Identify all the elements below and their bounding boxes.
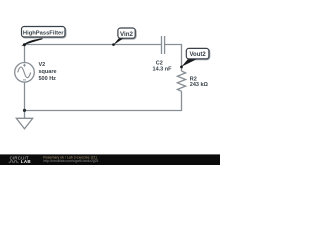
- capacitor C2: [162, 36, 165, 54]
- flag HighPassFilter: [21, 27, 66, 47]
- footer bar: [0, 154, 220, 165]
- wire source bottom lead: [24, 82, 26, 111]
- svg-text:243 kΩ: 243 kΩ: [190, 82, 209, 88]
- svg-text:14.3 nF: 14.3 nF: [153, 67, 173, 73]
- wire source top lead: [24, 45, 26, 63]
- svg-text:square: square: [39, 69, 57, 75]
- svg-text:http://circuitlab.com/c/gw5/4s: http://circuitlab.com/c/gw5/4sb4z2g25: [43, 159, 98, 163]
- node junction at bottom rail: [23, 109, 26, 112]
- flag Vin2: [112, 28, 136, 46]
- voltage source V2: [15, 63, 35, 83]
- wire top rail left of C2: [25, 44, 162, 46]
- ground: [16, 111, 32, 129]
- flag Vout2: [180, 48, 210, 68]
- resistor R2: [177, 71, 185, 91]
- svg-text:HighPassFilter: HighPassFilter: [23, 30, 64, 36]
- svg-text:Vin2: Vin2: [120, 31, 134, 38]
- svg-text:V2: V2: [39, 62, 46, 68]
- wire top rail right of C2 down to resistor: [165, 45, 182, 72]
- svg-text:Vout2: Vout2: [189, 52, 206, 58]
- wire resistor bottom to bottom rail: [25, 91, 182, 110]
- svg-text:LAB: LAB: [21, 159, 32, 164]
- svg-text:C2: C2: [156, 61, 163, 67]
- svg-text:500 Hz: 500 Hz: [39, 76, 57, 82]
- footer logo wave: [9, 161, 19, 162]
